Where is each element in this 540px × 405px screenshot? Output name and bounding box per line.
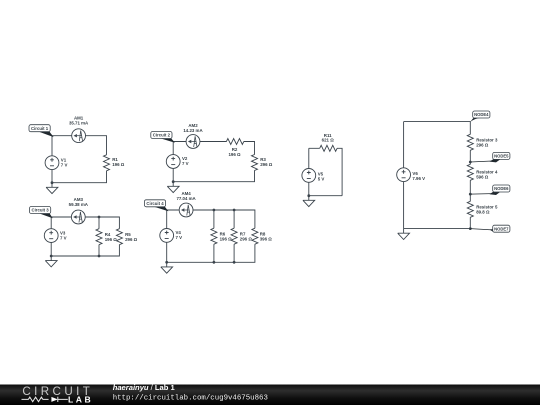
ammeter AM2 — [186, 135, 200, 149]
wire left V3 — [50, 217, 52, 256]
resistor R8 396 Ohm — [252, 228, 258, 244]
wire top: node to ammeter to R2 to corner — [173, 142, 254, 155]
wire left: V2 — [172, 142, 174, 182]
resistor R4 196 Ohm — [96, 229, 102, 245]
svg-text:396 Ω: 396 Ω — [260, 236, 273, 241]
svg-text:5 V: 5 V — [318, 177, 325, 182]
wire top — [167, 210, 255, 228]
voltage source V3 7 V — [44, 229, 58, 243]
node flag NODE4 — [470, 111, 490, 122]
svg-text:196 Ω: 196 Ω — [220, 236, 233, 241]
ground circuit 2 — [167, 182, 179, 193]
svg-text:NODE6: NODE6 — [494, 186, 509, 191]
node flag Circuit 3 — [30, 207, 52, 218]
svg-text:296 Ω: 296 Ω — [260, 162, 273, 167]
junction dot bottom branch — [98, 255, 101, 258]
wire R7 branch — [233, 210, 235, 262]
resistor R11 621 Ohm (horizontal) — [320, 145, 337, 151]
wire bottom — [404, 217, 471, 228]
svg-text:296 Ω: 296 Ω — [125, 237, 138, 242]
wire bottom and right — [167, 244, 255, 262]
junction dot node5 — [469, 161, 472, 164]
wire R4 branch — [98, 217, 100, 256]
junction dot bottom R7 branch — [233, 261, 236, 264]
svg-text:7 V: 7 V — [60, 235, 67, 240]
svg-text:NODE7: NODE7 — [494, 226, 509, 231]
wire bottom: V1 bottom to R1 bottom — [52, 170, 107, 183]
resistor R1 196 Ohm — [104, 155, 110, 171]
junction dot bottom R6 branch — [213, 261, 216, 264]
svg-text:296 Ω: 296 Ω — [240, 236, 253, 241]
svg-text:7 V: 7 V — [61, 162, 68, 167]
svg-text:621 Ω: 621 Ω — [322, 138, 335, 143]
svg-text:596 Ω: 596 Ω — [476, 175, 489, 180]
junction dot top R6 branch — [213, 209, 216, 212]
ground circuit 4 — [161, 262, 173, 273]
svg-text:89.8 Ω: 89.8 Ω — [476, 210, 490, 215]
junction dot bottom left — [50, 255, 53, 258]
wire bottom and right — [173, 170, 254, 181]
wire R6 branch — [213, 210, 215, 262]
svg-text:296 Ω: 296 Ω — [476, 143, 489, 148]
junction dot bottom V4 — [165, 261, 168, 264]
svg-text:7.96 V: 7.96 V — [412, 176, 425, 181]
resistor R5 296 Ohm — [116, 229, 122, 245]
svg-text:Circuit 1: Circuit 1 — [31, 126, 49, 131]
junction dot node6 — [469, 193, 472, 196]
resistor Resistor 4 596 Ohm — [467, 164, 473, 180]
svg-text:59.38 mA: 59.38 mA — [69, 202, 89, 207]
resistor Resistor 3 296 Ohm — [467, 134, 473, 150]
svg-text:7 V: 7 V — [182, 161, 189, 166]
ammeter AM1 — [72, 129, 86, 143]
svg-text:77.04 mA: 77.04 mA — [176, 196, 196, 201]
ammeter AM4 — [179, 203, 193, 217]
ground circuit 1 — [46, 183, 58, 194]
wire left V6 — [403, 122, 405, 229]
wire between resistor 3 and 4 — [469, 150, 471, 164]
resistor R2 196 Ohm (horizontal) — [226, 139, 243, 145]
junction dot node B — [51, 181, 54, 184]
node flag NODE6 — [470, 185, 510, 195]
wire left: V1 to top node A — [51, 136, 53, 156]
junction dot node7 — [469, 227, 472, 230]
wire bottom — [309, 195, 342, 197]
junction dot — [307, 194, 310, 197]
wire top — [51, 217, 119, 229]
voltage source V2 7 V — [166, 155, 180, 169]
node flag NODE7 — [470, 225, 510, 232]
svg-text:35.71 mA: 35.71 mA — [69, 121, 89, 126]
svg-text:14.23 mA: 14.23 mA — [183, 128, 203, 133]
resistor R7 296 Ohm — [231, 228, 237, 244]
svg-text:196 Ω: 196 Ω — [105, 237, 118, 242]
logo schematic squiggle: wire, resistor, diode — [22, 397, 49, 402]
svg-text:196 Ω: 196 Ω — [228, 152, 241, 157]
junction dot — [172, 180, 175, 183]
voltage source V4 7 V — [160, 229, 174, 243]
voltage source V1 7 V — [45, 156, 59, 170]
svg-text:Circuit 3: Circuit 3 — [31, 208, 49, 213]
resistor Resistor 5 89.8 Ohm — [467, 201, 473, 217]
ground circuit 6 — [398, 229, 410, 240]
wire bottom and right — [51, 245, 119, 256]
wire top — [404, 122, 471, 135]
voltage source V5 5 V — [302, 169, 316, 183]
junction dot top branch — [98, 216, 101, 219]
svg-text:haerainyu / Lab 1: haerainyu / Lab 1 — [113, 383, 176, 392]
ground circuit 5 — [303, 196, 315, 207]
svg-text:7 V: 7 V — [176, 235, 183, 240]
svg-text:NODE5: NODE5 — [494, 154, 509, 159]
node flag Circuit 1 — [29, 125, 52, 136]
wire left V5 — [308, 148, 310, 195]
wire between resistor 4 and 5 — [469, 180, 471, 201]
svg-text:Circuit 2: Circuit 2 — [153, 133, 171, 138]
ammeter AM3 — [71, 210, 85, 224]
resistor R6 196 Ohm — [211, 228, 217, 244]
wire left V4 — [166, 210, 168, 262]
svg-text:http://circuitlab.com/cug9v467: http://circuitlab.com/cug9v4675u863 — [113, 395, 268, 403]
svg-text:LAB: LAB — [68, 395, 93, 405]
resistor R3 296 Ohm — [252, 155, 258, 171]
wire top — [309, 148, 342, 195]
svg-text:NODE4: NODE4 — [474, 112, 489, 117]
voltage source V6 7.96 V — [397, 168, 411, 182]
node flag NODE5 — [470, 152, 510, 162]
svg-text:Circuit 4: Circuit 4 — [146, 201, 164, 206]
svg-text:196 Ω: 196 Ω — [112, 162, 125, 167]
junction dot top R7 branch — [233, 209, 236, 212]
node flag Circuit 4 — [144, 200, 167, 211]
wire top: node A to R1 top — [52, 136, 107, 155]
node flag Circuit 2 — [151, 132, 174, 142]
ground circuit 3 — [45, 256, 57, 267]
